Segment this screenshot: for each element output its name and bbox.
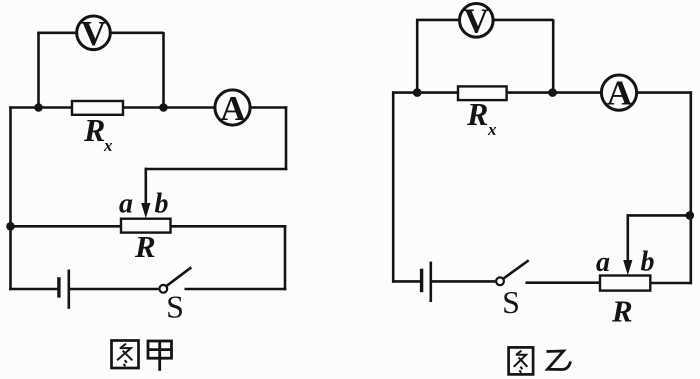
wire: voltmeter loop left vertical: [37, 32, 40, 108]
wire: bottom rail left segment: [9, 288, 57, 291]
rheostat R (right) body: [600, 276, 650, 291]
wire: slider stem vertical: [145, 168, 148, 206]
voltmeter V2 circle: [460, 4, 494, 38]
ammeter A2 circle: [601, 75, 636, 110]
slider arrow head (left rheostat): [141, 203, 150, 218]
caption 图乙 character 乙: [547, 351, 571, 370]
battery B1 short plate (negative): [57, 277, 60, 297]
switch S (left) lever: [166, 267, 191, 286]
wire: voltmeter loop left vertical (right circuit): [416, 19, 419, 92]
svg-text:b: b: [155, 189, 169, 220]
wire: switch to bottom-right: [185, 288, 287, 291]
switch S (right) hinge circle: [496, 277, 504, 285]
wire: rheostat right lead: [171, 225, 287, 228]
switch S (right) lever: [503, 260, 529, 279]
wire: branch to slider horizontal: [627, 214, 691, 217]
node B3 (junction on right vertical): [686, 211, 695, 220]
svg-text:S: S: [502, 284, 520, 320]
svg-text:R: R: [611, 294, 633, 329]
svg-text:b: b: [641, 247, 655, 278]
battery B1 long plate (positive): [68, 270, 71, 309]
wire: rheostat right lead (right circuit): [650, 282, 692, 285]
battery B2 short plate (negative): [420, 269, 423, 293]
wire: voltmeter loop right vertical (right circuit): [552, 19, 555, 92]
svg-text:R: R: [134, 229, 156, 264]
wire: right vertical of right circuit: [689, 91, 692, 284]
svg-text:V: V: [81, 14, 106, 53]
switch S (left) hinge circle: [159, 285, 167, 293]
wire: left vertical of left circuit: [9, 106, 12, 290]
slider arrow head (right rheostat): [623, 260, 632, 275]
wire: left vertical of right circuit: [392, 91, 395, 282]
svg-text:A: A: [607, 74, 633, 113]
caption 图甲 character 图: [112, 341, 139, 369]
wire: bottom-left segment (right circuit): [392, 280, 422, 283]
wire: battery to switch (right circuit): [431, 280, 495, 283]
wire: top main horizontal (battery+ rail through Rx to ammeter): [9, 106, 215, 109]
battery B2 long plate (positive): [429, 262, 432, 302]
svg-text:V: V: [464, 2, 489, 41]
svg-text:x: x: [487, 120, 497, 139]
svg-text:a: a: [596, 247, 610, 278]
ammeter A1 circle: [215, 90, 250, 125]
wire: ammeter to top-right corner: [637, 91, 693, 94]
wire: right vertical down from ammeter: [285, 106, 288, 170]
svg-text:S: S: [166, 289, 184, 325]
resistor Rx (left) body: [72, 101, 123, 115]
wire: top main horizontal of right circuit: [392, 91, 602, 94]
node A1 (left junction of voltmeter branch): [34, 103, 43, 112]
svg-text:x: x: [103, 136, 113, 155]
svg-text:A: A: [220, 89, 246, 128]
rheostat R (left) body: [121, 219, 171, 233]
svg-text:R: R: [466, 96, 488, 132]
node B2 (right junction, right circuit): [548, 88, 557, 97]
caption 图甲 character 甲: [148, 341, 172, 371]
wire: horizontal over rheostat (to slider): [145, 168, 288, 171]
voltmeter V1 circle: [77, 16, 111, 50]
wire: voltmeter loop right vertical: [162, 32, 165, 108]
node B1 (left junction, right circuit): [413, 88, 422, 97]
wire: rheostat left lead: [9, 225, 121, 228]
node A2 (right junction of voltmeter branch): [159, 103, 168, 112]
resistor Rx (right) body: [458, 86, 507, 100]
wire: slider stem vertical (right): [626, 214, 629, 263]
svg-text:R: R: [83, 112, 105, 148]
wire: voltmeter loop top horizontal (right circuit): [416, 19, 553, 22]
wire: battery to switch: [69, 288, 159, 291]
wire: voltmeter loop top horizontal: [37, 31, 163, 34]
wire: ammeter to right bend: [250, 106, 287, 109]
caption 图乙 character 图: [509, 347, 533, 374]
svg-text:a: a: [119, 189, 133, 220]
wire: switch to rheostat left lead: [526, 281, 601, 284]
wire: bottom right vertical: [284, 225, 287, 290]
node A3 (junction on left vertical): [6, 222, 15, 231]
